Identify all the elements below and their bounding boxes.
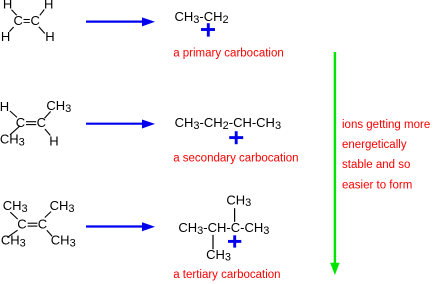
- svg-text:C=C: C=C: [14, 13, 40, 28]
- svg-text:CH3-CH2-CH-CH3: CH3-CH2-CH-CH3: [175, 115, 281, 132]
- svg-text:stable and so: stable and so: [342, 159, 410, 171]
- svg-text:CH3-CH2: CH3-CH2: [175, 9, 229, 26]
- svg-text:energetically: energetically: [342, 139, 407, 151]
- svg-text:a tertiary carbocation: a tertiary carbocation: [173, 269, 280, 281]
- svg-text:a secondary carbocation: a secondary carbocation: [173, 152, 298, 164]
- svg-text:H: H: [3, 0, 12, 12]
- svg-text:a primary carbocation: a primary carbocation: [173, 47, 284, 59]
- svg-text:ions getting more: ions getting more: [342, 119, 430, 131]
- svg-text:H: H: [44, 0, 53, 12]
- svg-text:CH3-CH-C-CH3: CH3-CH-C-CH3: [178, 220, 269, 237]
- svg-text:H: H: [49, 133, 58, 148]
- svg-text:H: H: [45, 29, 54, 44]
- svg-text:H: H: [1, 29, 10, 44]
- svg-text:C: C: [38, 217, 47, 232]
- svg-text:easier to form: easier to form: [342, 179, 412, 191]
- svg-text:H: H: [0, 99, 9, 114]
- svg-text:C: C: [37, 115, 46, 130]
- svg-text:C: C: [17, 217, 26, 232]
